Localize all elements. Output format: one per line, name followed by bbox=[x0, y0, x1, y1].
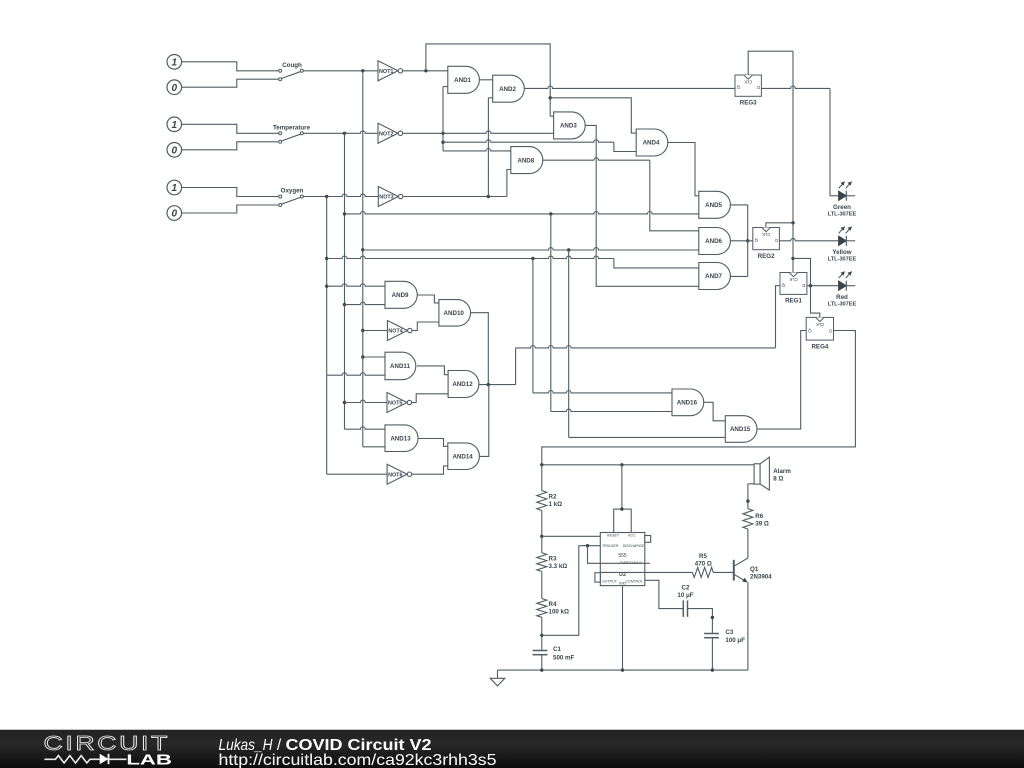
svg-text:555: 555 bbox=[618, 553, 627, 559]
wire C2 to C3 bbox=[688, 609, 715, 634]
wire cough to AND11.A bbox=[363, 356, 385, 358]
wire NOT5 out to AND12.B bbox=[412, 394, 449, 403]
svg-text:1: 1 bbox=[172, 120, 178, 131]
svg-text:CLK: CLK bbox=[816, 322, 824, 327]
svg-text:Green: Green bbox=[833, 204, 851, 211]
wire C3 to ground rail bbox=[711, 638, 713, 670]
gate AND12 bbox=[448, 371, 479, 398]
svg-text:REG4: REG4 bbox=[811, 343, 828, 350]
wire R6 to speaker bbox=[746, 484, 754, 509]
wire REG3 clk loop bbox=[748, 51, 793, 75]
LED Yellow LTL-307EE bbox=[828, 227, 857, 263]
wire AND13 out to AND14.A bbox=[418, 439, 448, 447]
switch SW Oxygen bbox=[279, 188, 304, 207]
switch SW Temperature bbox=[273, 124, 311, 143]
svg-text:0: 0 bbox=[172, 83, 178, 94]
svg-text:1 kΩ: 1 kΩ bbox=[549, 501, 563, 508]
node trigger junction bbox=[586, 544, 589, 547]
svg-text:R6: R6 bbox=[755, 513, 763, 520]
CircuitLab logo LAB text bbox=[126, 752, 171, 768]
gate AND7 bbox=[699, 263, 731, 290]
inverter NOT6 bbox=[387, 464, 412, 484]
LED Green LTL-307EE bbox=[828, 182, 857, 218]
wire oxy to NOT6 bbox=[327, 473, 387, 475]
svg-text:LTL-307EE: LTL-307EE bbox=[828, 211, 857, 217]
svg-text:AND16: AND16 bbox=[677, 400, 698, 407]
wire oxy to AND11.B bbox=[327, 373, 385, 375]
LED Red LTL-307EE bbox=[828, 272, 857, 308]
svg-text:R5: R5 bbox=[699, 553, 707, 560]
svg-text:39 Ω: 39 Ω bbox=[755, 521, 769, 528]
wire REG1.D line bbox=[516, 286, 780, 348]
wire cough to NOT4 bbox=[363, 330, 388, 332]
wire AND15 out to REG4.D bbox=[757, 331, 806, 430]
svg-text:LTL-307EE: LTL-307EE bbox=[828, 301, 857, 307]
inverter NOT1 bbox=[378, 61, 403, 81]
wire vcc rail bbox=[540, 463, 754, 466]
svg-text:AND7: AND7 bbox=[705, 273, 722, 280]
wire REG4 clk bbox=[811, 286, 820, 318]
svg-text:2N3904: 2N3904 bbox=[750, 574, 772, 581]
svg-text:Q: Q bbox=[736, 85, 740, 90]
wire cough bus vertical bbox=[361, 71, 364, 447]
wire temp to AND9.B bbox=[345, 302, 386, 304]
capacitor C3 bbox=[704, 629, 745, 644]
gate AND1 bbox=[448, 66, 480, 93]
svg-text:CONTROL: CONTROL bbox=[625, 580, 643, 584]
wire 555 gnd bbox=[622, 586, 624, 671]
resistor R3 bbox=[537, 553, 567, 572]
wire temperature bus vertical bbox=[343, 133, 346, 429]
wire AND8 out to AND6.A bbox=[543, 158, 699, 231]
svg-text:NOT4: NOT4 bbox=[388, 329, 402, 335]
svg-text:NOT2: NOT2 bbox=[379, 131, 393, 137]
wire to AND8.B bbox=[507, 170, 511, 197]
svg-text:AND4: AND4 bbox=[643, 140, 660, 147]
svg-text:NOT6: NOT6 bbox=[388, 472, 402, 478]
wire NOT3 out bbox=[403, 195, 507, 198]
svg-text:NOT1: NOT1 bbox=[379, 69, 393, 75]
svg-text:Q: Q bbox=[808, 328, 812, 333]
resistor R5 bbox=[693, 553, 714, 577]
wire net to AND4.B bbox=[443, 140, 636, 152]
switch SW Cough bbox=[279, 62, 304, 81]
svg-text:Q1: Q1 bbox=[750, 566, 759, 573]
footer title Lukas_H / COVID Circuit V2 bbox=[219, 737, 432, 754]
svg-text:LTL-307EE: LTL-307EE bbox=[828, 256, 857, 262]
speaker Alarm 8 ohm bbox=[754, 457, 791, 490]
wire rail to R2 bbox=[541, 465, 543, 491]
wire AND16 out to AND15.A bbox=[704, 402, 726, 421]
node Temperature input 1 bbox=[167, 117, 182, 132]
wire cough row to NOT1 bbox=[303, 69, 378, 72]
wire oxygen 1 to switch bbox=[182, 188, 279, 197]
wire control to C2 bbox=[645, 580, 684, 608]
flip-flop REG2 bbox=[753, 228, 780, 261]
wire temp-net to AND16.B bbox=[551, 214, 672, 412]
svg-text:Cough: Cough bbox=[282, 62, 302, 69]
wire NOT1 out to AND1.A bbox=[403, 69, 448, 72]
wire NOT1 feedback top bbox=[426, 44, 550, 116]
capacitor C1 bbox=[533, 646, 575, 661]
wire oxygen bus vertical bbox=[325, 197, 328, 475]
wire temperature 1 to switch bbox=[182, 124, 279, 133]
wire AND14 out up bbox=[479, 385, 488, 457]
svg-text:NOT5: NOT5 bbox=[388, 401, 402, 407]
wire cough to AND6.B bbox=[363, 248, 699, 252]
wire clk branch to REG1.D bbox=[793, 258, 811, 285]
gate AND13 bbox=[385, 425, 418, 452]
wire temp to AND5.B bbox=[345, 211, 699, 215]
CircuitLab logo resistor-diode symbol bbox=[44, 754, 126, 764]
gate AND8 bbox=[511, 147, 543, 174]
svg-text:CLK: CLK bbox=[762, 232, 770, 237]
wire oxy-net to AND16.A bbox=[533, 259, 672, 393]
svg-text:TRIGGER: TRIGGER bbox=[602, 544, 619, 548]
svg-text:Oxygen: Oxygen bbox=[281, 188, 304, 195]
inverter NOT5 bbox=[387, 393, 412, 413]
gate AND6 bbox=[699, 228, 731, 255]
wire cough to AND13.B bbox=[363, 446, 385, 448]
wire oxy to AND9.A bbox=[327, 284, 385, 286]
svg-text:DISCHARGE: DISCHARGE bbox=[623, 544, 645, 548]
svg-text:C3: C3 bbox=[725, 629, 733, 636]
wire NOT2 out to AND3.B bbox=[403, 131, 553, 135]
wire AND12 out bbox=[479, 383, 516, 386]
svg-text:NOT3: NOT3 bbox=[379, 195, 393, 201]
svg-text:8 Ω: 8 Ω bbox=[773, 476, 783, 483]
wire AND3 out to AND7.B bbox=[585, 125, 699, 286]
gate AND14 bbox=[448, 443, 480, 470]
wire branch to AND4.A bbox=[550, 98, 636, 133]
svg-text:C2: C2 bbox=[682, 584, 690, 591]
gate AND15 bbox=[725, 416, 757, 443]
wire REG2 out to Yellow LED bbox=[779, 238, 838, 240]
svg-text:0: 0 bbox=[172, 145, 178, 156]
svg-text:3.3 kΩ: 3.3 kΩ bbox=[549, 563, 568, 570]
wire temperature 0 to switch bbox=[182, 142, 279, 150]
resistor R2 bbox=[537, 491, 562, 511]
svg-text:AND6: AND6 bbox=[705, 238, 722, 245]
wire reset line bbox=[542, 535, 601, 537]
gate AND5 bbox=[699, 191, 731, 218]
svg-text:Temperature: Temperature bbox=[273, 124, 311, 131]
svg-text:0: 0 bbox=[172, 209, 178, 220]
wire cough-net to AND15.B bbox=[569, 250, 726, 437]
resistor R4 bbox=[537, 599, 569, 618]
svg-text:Red: Red bbox=[836, 294, 848, 301]
wire net to AND8.A bbox=[443, 149, 511, 151]
svg-text:470 Ω: 470 Ω bbox=[695, 561, 712, 568]
wire AND1.B stub bbox=[443, 86, 448, 88]
wire AND1 out to AND2.A bbox=[479, 79, 492, 81]
svg-text:LAB: LAB bbox=[126, 752, 171, 768]
svg-text:AND13: AND13 bbox=[390, 435, 411, 442]
wire AND12 net riser bbox=[515, 348, 517, 385]
wire AND9 out to AND10.A bbox=[417, 295, 439, 303]
svg-text:OUTPUT: OUTPUT bbox=[602, 580, 618, 584]
wire REG2 clk loop bbox=[766, 223, 793, 228]
node junction AND4 branch bbox=[549, 96, 552, 99]
svg-text:1: 1 bbox=[172, 183, 178, 194]
transistor Q1 2N3904 bbox=[734, 558, 772, 583]
svg-text:AND3: AND3 bbox=[560, 123, 577, 130]
inverter NOT2 bbox=[378, 123, 403, 143]
svg-text:10 μF: 10 μF bbox=[677, 592, 693, 599]
flip-flop REG1 bbox=[780, 273, 807, 305]
wire trigger to threshold bbox=[588, 546, 650, 564]
wire temp to NOT5 bbox=[345, 400, 388, 402]
svg-text:AND1: AND1 bbox=[454, 77, 471, 84]
wire AND10 out down bbox=[471, 313, 489, 385]
IC U2 555 timer bbox=[595, 509, 651, 585]
node Cough input 1 bbox=[167, 55, 182, 70]
capacitor C2 bbox=[677, 584, 693, 616]
svg-text:100 kΩ: 100 kΩ bbox=[549, 609, 569, 616]
gate AND3 bbox=[554, 112, 586, 139]
wire oxygen row to NOT3 bbox=[303, 194, 378, 198]
svg-text:AND15: AND15 bbox=[730, 426, 751, 433]
wire AND1.B vertical bbox=[441, 87, 444, 151]
svg-text:100 μF: 100 μF bbox=[725, 637, 745, 644]
node Oxygen input 1 bbox=[167, 180, 182, 195]
wire clk bus bbox=[791, 51, 794, 272]
wire NOT4 out to AND10.B bbox=[412, 322, 439, 331]
wire REG3 out to Green LED bbox=[761, 86, 830, 196]
ground bbox=[490, 670, 505, 686]
gate AND9 bbox=[385, 281, 417, 308]
wire AND2 out to REG3.D bbox=[524, 86, 735, 88]
wire Q1 collector to R6 bbox=[747, 529, 749, 558]
svg-text:C1: C1 bbox=[553, 646, 561, 653]
CircuitLab logo CIRCUIT text bbox=[44, 732, 171, 755]
svg-text:VCC: VCC bbox=[628, 534, 636, 538]
svg-text:Q: Q bbox=[781, 283, 785, 288]
wire R5 to Q1 base bbox=[713, 571, 733, 573]
gate AND10 bbox=[439, 300, 471, 327]
svg-text:http://circuitlab.com/ca92kc3r: http://circuitlab.com/ca92kc3rhh3s5 bbox=[219, 752, 497, 768]
svg-text:AND8: AND8 bbox=[517, 157, 534, 164]
svg-text:REG1: REG1 bbox=[785, 298, 802, 305]
node Temperature input 0 bbox=[167, 143, 182, 158]
svg-text:500 mF: 500 mF bbox=[553, 654, 575, 661]
svg-text:AND14: AND14 bbox=[452, 453, 473, 460]
svg-text:REG3: REG3 bbox=[740, 100, 757, 107]
svg-text:CLK: CLK bbox=[744, 79, 752, 84]
svg-text:Q: Q bbox=[754, 238, 758, 243]
wire AND2.B vertical bbox=[488, 98, 492, 197]
svg-text:R2: R2 bbox=[549, 493, 557, 500]
wire vcc drop to 555 bbox=[620, 465, 623, 511]
svg-text:CLK: CLK bbox=[789, 277, 797, 282]
wire cough 1 to switch bbox=[182, 62, 279, 71]
svg-text:R3: R3 bbox=[549, 555, 557, 562]
footer url bbox=[219, 752, 497, 768]
wire trigger return bbox=[542, 546, 601, 636]
wire AND11 out to AND12.A bbox=[417, 366, 448, 375]
node Oxygen input 0 bbox=[167, 206, 182, 221]
wire top vertical into AND3.A bbox=[550, 115, 553, 117]
svg-text:AND12: AND12 bbox=[452, 381, 473, 388]
node Cough input 0 bbox=[167, 80, 182, 95]
gate AND11 bbox=[385, 352, 416, 380]
wire 555 output to R5 bbox=[600, 571, 693, 573]
wire temperature row to NOT2 bbox=[303, 131, 378, 135]
svg-text:AND10: AND10 bbox=[444, 310, 465, 317]
wire Q1 emitter down bbox=[747, 583, 749, 671]
wire REG1 out to Red LED bbox=[807, 284, 839, 287]
gate AND2 bbox=[493, 75, 525, 102]
wire temp to AND13.A bbox=[345, 427, 386, 429]
wire AND5-7 outputs to REG2.D bbox=[730, 205, 752, 277]
svg-text:RESET: RESET bbox=[607, 534, 620, 538]
svg-text:R4: R4 bbox=[549, 601, 557, 608]
inverter NOT4 bbox=[387, 321, 412, 341]
flip-flop REG4 bbox=[806, 317, 833, 350]
wire REG4 out to alarm rail bbox=[542, 331, 856, 465]
svg-text:AND11: AND11 bbox=[390, 363, 411, 370]
svg-text:REG2: REG2 bbox=[758, 253, 775, 260]
gate AND4 bbox=[636, 129, 668, 156]
svg-text:Yellow: Yellow bbox=[832, 249, 851, 256]
flip-flop REG3 bbox=[735, 75, 761, 107]
wire oxy to AND7.A bbox=[327, 256, 699, 268]
wire cough 0 to switch bbox=[182, 79, 279, 87]
wire AND4 out to AND5.A bbox=[668, 143, 699, 196]
svg-text:AND9: AND9 bbox=[392, 292, 409, 299]
wire C1 to ground rail bbox=[541, 655, 543, 670]
wire NOT6 out to AND14.B bbox=[412, 466, 448, 474]
resistor R6 bbox=[743, 509, 769, 529]
inverter NOT3 bbox=[378, 187, 403, 207]
wire R2 to R3 bbox=[540, 511, 543, 553]
wire R3 to R4 bbox=[541, 572, 543, 599]
svg-text:AND5: AND5 bbox=[705, 202, 722, 209]
svg-text:AND2: AND2 bbox=[499, 86, 516, 93]
svg-text:1: 1 bbox=[172, 57, 178, 68]
wire ground rail bbox=[498, 668, 748, 671]
gate AND16 bbox=[672, 389, 704, 416]
wire R4 to C1 bbox=[540, 617, 543, 650]
wire oxygen 0 to switch bbox=[182, 205, 279, 213]
svg-text:Alarm: Alarm bbox=[773, 468, 791, 475]
